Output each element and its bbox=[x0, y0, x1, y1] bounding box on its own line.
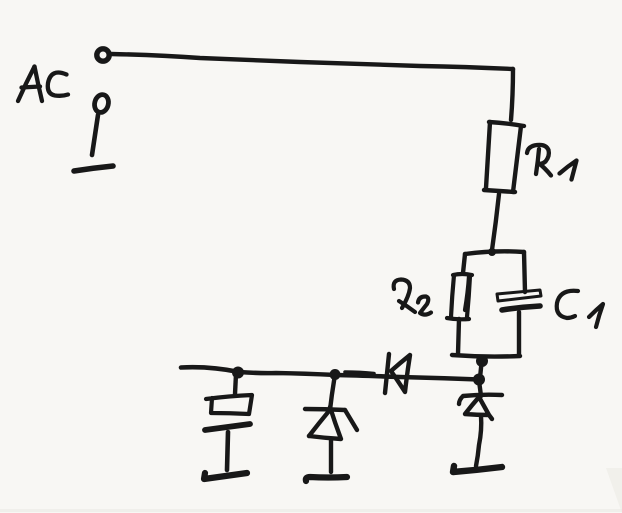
capacitor C2 bottom plate bbox=[205, 424, 250, 430]
label R2 bbox=[394, 280, 431, 315]
wire RC box outline top bbox=[465, 251, 524, 254]
capacitor C1 top plate bbox=[497, 290, 541, 301]
node bottom of RC box bbox=[476, 355, 488, 367]
zener D2 lead top bbox=[330, 375, 335, 410]
wire bottom terminal lead bbox=[92, 115, 98, 155]
wire bottom horizontal bbox=[181, 367, 479, 379]
zener D2 lead bottom bbox=[329, 440, 333, 472]
ground AC bbox=[74, 166, 113, 171]
ground C2 bbox=[204, 473, 247, 479]
node A bbox=[232, 367, 244, 379]
capacitor C2 lead bbox=[235, 374, 236, 394]
resistor R1 bbox=[484, 122, 524, 192]
label AC bbox=[18, 67, 68, 102]
zener D2 triangle left side bbox=[309, 411, 329, 436]
wire top horizontal bbox=[111, 54, 513, 69]
zener D2 wing bbox=[345, 410, 357, 430]
zener D3 bar bbox=[459, 395, 502, 404]
wire RC box right upper bbox=[524, 252, 525, 292]
wire RC box left upper bbox=[463, 254, 465, 273]
ground D3 bbox=[453, 466, 502, 472]
wire RC box left lower bbox=[458, 319, 459, 354]
capacitor C2 top plate bbox=[206, 395, 252, 414]
resistor R2 bbox=[447, 274, 472, 319]
ground D2 bbox=[306, 477, 347, 481]
terminal bottom circle bbox=[93, 93, 111, 114]
capacitor C1 bottom plate bbox=[502, 306, 540, 310]
zener D2 bar bbox=[305, 409, 345, 410]
label C1 bbox=[557, 291, 603, 327]
capacitor C2 bottom lead bbox=[227, 432, 228, 470]
wire RC box bottom bbox=[452, 355, 520, 357]
wire RC box right lower bbox=[517, 312, 521, 355]
node top of RC box bbox=[488, 248, 496, 256]
wire box bottom to node bbox=[480, 358, 482, 378]
wire corner down to R1 bbox=[511, 69, 513, 120]
label R1 bbox=[527, 145, 577, 180]
node B bbox=[330, 369, 341, 380]
diode D1 bbox=[385, 354, 410, 393]
zener D3 lead top bbox=[479, 381, 481, 396]
zener D2 triangle bbox=[309, 407, 341, 439]
zener D3 lead bottom bbox=[476, 416, 481, 466]
faint scan streak bottom right bbox=[606, 468, 622, 513]
wire R1 bottom lead bbox=[492, 194, 499, 250]
zener D3 triangle bbox=[465, 397, 492, 419]
terminal top circle bbox=[97, 49, 109, 61]
node junction main bbox=[473, 374, 485, 386]
wire doubled segment bbox=[345, 372, 374, 374]
